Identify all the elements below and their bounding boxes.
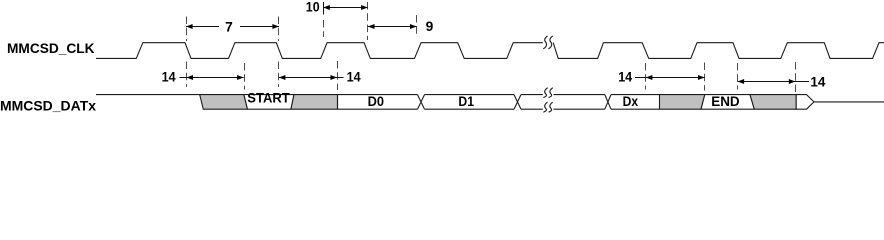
dimension 7 (clock period) bbox=[186, 20, 279, 35]
D0 box rails bbox=[338, 95, 418, 110]
crossover X1 bbox=[418, 95, 425, 110]
dashed extension line at START left edge (x=244) bbox=[244, 63, 246, 90]
dashed extension line at END left edge (x=704.7) bbox=[704, 63, 706, 91]
gray bus segment 4 bbox=[750, 95, 796, 110]
svg-text:END: END bbox=[711, 94, 740, 109]
data break mark top rail 1 bbox=[544, 88, 547, 97]
END cell bbox=[701, 95, 754, 110]
dimension 10 (clock high) bbox=[306, 0, 368, 15]
Dx box rails bbox=[611, 95, 660, 110]
gray bus segment 2 bbox=[291, 95, 338, 110]
MMCSD_CLK waveform left of break bbox=[96, 43, 543, 59]
DATx trailing wire bbox=[814, 101, 884, 103]
gray bus segment 1 bbox=[200, 95, 248, 110]
svg-text:Dx: Dx bbox=[623, 94, 639, 109]
clock break mark 2 bbox=[549, 36, 553, 48]
dimension 14 #2 (clk fall to D0) bbox=[279, 70, 361, 85]
clock break mark 1 bbox=[544, 36, 548, 48]
svg-text:START: START bbox=[247, 90, 290, 105]
dimension 14 #4 (clk fall to end cap) bbox=[738, 74, 826, 89]
data break mark bottom rail 1 bbox=[544, 102, 547, 112]
svg-text:14: 14 bbox=[162, 70, 176, 85]
dashed extension line below tick x=323 bbox=[323, 20, 325, 37]
dimension 9 (clock low) bbox=[368, 19, 434, 34]
MMCSD_CLK waveform right of break bbox=[553, 43, 884, 59]
dashed extension line at clock fall 2 (x=279) lower bbox=[278, 62, 280, 88]
data break mark bottom rail 2 bbox=[549, 102, 552, 112]
dashed extension line at clock fall 3 (x=367.7) bbox=[367, 2, 369, 40]
svg-text:14: 14 bbox=[810, 74, 825, 89]
svg-text:MMCSD_DATx: MMCSD_DATx bbox=[0, 99, 96, 114]
svg-text:9: 9 bbox=[426, 19, 434, 34]
rails after break bbox=[554, 95, 605, 110]
svg-text:MMCSD_CLK: MMCSD_CLK bbox=[7, 41, 95, 56]
gray bus segment 3 bbox=[660, 95, 705, 110]
dashed extension line at clock fall 6 (x=645.8) bbox=[645, 63, 647, 90]
rails to break bbox=[521, 95, 543, 110]
dashed extension line at clock fall 1 (x=186) lower bbox=[186, 62, 188, 88]
bus end cap bbox=[796, 95, 814, 110]
dimension 14 #3 (clk fall to END) bbox=[618, 70, 704, 85]
svg-text:D0: D0 bbox=[368, 94, 385, 109]
crossover X2 bbox=[514, 95, 521, 110]
dashed extension line at clock fall 2 (x=279) upper bbox=[278, 17, 280, 42]
svg-text:10: 10 bbox=[306, 0, 320, 15]
dashed extension line at clock fall 7 (x=737.5) bbox=[737, 63, 739, 90]
dashed extension line at clock fall 1 (x=186) upper bbox=[186, 17, 188, 42]
D0/D1 rails drawn explicitly bbox=[338, 95, 660, 110]
svg-text:14: 14 bbox=[618, 70, 632, 85]
svg-text:D1: D1 bbox=[458, 94, 474, 109]
DATx lead-in wire bbox=[96, 94, 200, 96]
dashed extension line at D0 left edge (x=337) bbox=[337, 61, 339, 90]
dimension 14 #1 (clk fall to START) bbox=[162, 70, 244, 85]
svg-text:7: 7 bbox=[225, 20, 233, 35]
svg-text:14: 14 bbox=[347, 70, 361, 85]
data break mark top rail 2 bbox=[549, 88, 552, 97]
START cell bbox=[244, 95, 294, 110]
D1 box rails bbox=[425, 95, 515, 110]
dashed extension line at end-cap left edge (x=795.8) bbox=[795, 62, 797, 92]
crossover X3 bbox=[605, 95, 611, 110]
dashed extension line at clock rise 4 (x=416.8) bbox=[416, 15, 418, 37]
